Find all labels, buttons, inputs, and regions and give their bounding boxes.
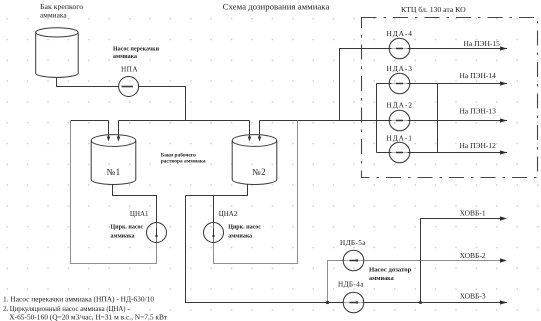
НДА-4 branch	[340, 49, 508, 121]
pump ЦНА1	[147, 223, 167, 243]
svg-text:ХОВБ-2: ХОВБ-2	[460, 251, 486, 260]
wire through pump ЦНА2	[213, 223, 215, 243]
tank1 feed stubs with arrows	[109, 121, 119, 138]
svg-text:аммиака: аммиака	[40, 11, 67, 20]
pump НДБ-5а	[343, 250, 364, 271]
ЦНА1 return loop (gray)	[71, 121, 157, 264]
svg-text:На ПЭН-13: На ПЭН-13	[460, 107, 497, 116]
svg-text:№2: №2	[252, 167, 266, 177]
svg-text:Насос перекачки: Насос перекачки	[113, 47, 160, 53]
pump НДА-1	[389, 142, 410, 163]
pump НДА-2	[389, 110, 410, 131]
wire through pump NPA	[120, 86, 137, 88]
central dosing feed line	[186, 196, 344, 303]
tank2 feed stubs with arrows	[250, 121, 260, 138]
svg-text:аммиака: аммиака	[113, 54, 137, 60]
pump НДБ-4а	[343, 292, 364, 313]
svg-text:аммиака: аммиака	[369, 275, 394, 282]
svg-text:НДБ-5а: НДБ-5а	[340, 239, 366, 247]
svg-text:КТЦ бл. 130 ата КО: КТЦ бл. 130 ата КО	[401, 5, 466, 14]
НДБ-5а discharge to ХОВБ-2 (gray)	[344, 260, 501, 262]
discharge tie	[437, 84, 439, 153]
svg-text:Схема дозирования аммиака: Схема дозирования аммиака	[223, 2, 330, 12]
arrow ХОВБ-2	[500, 258, 507, 262]
svg-text:ЦНА2: ЦНА2	[219, 210, 238, 218]
НДА-1 line	[377, 152, 508, 154]
wire: NPA discharge	[139, 87, 186, 121]
svg-text:ХОВБ-3: ХОВБ-3	[460, 292, 486, 301]
pump НДА-4	[389, 38, 410, 59]
svg-text:НДА-3: НДА-3	[387, 64, 413, 73]
svg-text:Баки рабочего: Баки рабочего	[161, 152, 196, 159]
svg-text:аммиака: аммиака	[111, 233, 135, 239]
svg-text:На ПЭН-14: На ПЭН-14	[460, 71, 497, 80]
ХОВБ tie line	[421, 219, 501, 303]
arrow ХОВБ-1	[500, 216, 507, 220]
main feed line y=120.5	[71, 120, 508, 122]
НДА-3 line	[377, 83, 508, 85]
svg-text:НДА-2: НДА-2	[387, 101, 413, 110]
svg-text:НДА-4: НДА-4	[387, 29, 413, 38]
svg-text:НДА-1: НДА-1	[387, 134, 413, 143]
arrow ХОВБ-3	[500, 300, 507, 304]
arrows На ПЭН	[500, 46, 507, 50]
svg-text:ХОВБ-1: ХОВБ-1	[460, 209, 486, 218]
pump НПА	[119, 77, 139, 97]
svg-text:Х-65-50-160 (Q=20 м3/час, Н=31: Х-65-50-160 (Q=20 м3/час, Н=31 м в.с., N…	[9, 312, 168, 321]
svg-text:На ПЭН-12: На ПЭН-12	[460, 141, 497, 150]
svg-text:№1: №1	[107, 167, 121, 177]
tank1 suction to ЦНА1	[113, 185, 157, 223]
svg-text:1. Насос перекачки аммиака (НП: 1. Насос перекачки аммиака (НПА) - НД-63…	[3, 295, 154, 304]
svg-text:ЦНА1: ЦНА1	[130, 210, 149, 218]
svg-text:Насос дозатор: Насос дозатор	[369, 266, 412, 273]
svg-text:Цирк. насос: Цирк. насос	[228, 225, 261, 231]
tank2 suction to ЦНА2 + central branch	[186, 185, 248, 223]
wire through pump ЦНА1	[156, 223, 158, 243]
tank: Бак крепкого аммиака	[36, 28, 79, 78]
tank №2	[232, 135, 277, 185]
svg-text:Цирк. насос: Цирк. насос	[111, 225, 144, 231]
ЦНА2 return loop (gray)	[214, 121, 298, 264]
svg-text:НПА: НПА	[121, 65, 138, 74]
svg-text:аммиака: аммиака	[228, 233, 252, 239]
pump ЦНА2	[204, 223, 224, 243]
НДБ-5а branch (gray)	[328, 261, 344, 303]
suction manifold	[376, 84, 378, 153]
svg-text:НДБ-4а: НДБ-4а	[338, 281, 364, 289]
pump НДА-3	[389, 73, 410, 94]
tank №1	[91, 135, 136, 185]
dashed box КТЦ	[362, 18, 538, 178]
svg-text:раствора аммиака: раствора аммиака	[161, 159, 206, 165]
wire: tank outlet to NPA suction	[57, 78, 119, 87]
svg-text:На ПЭН-15: На ПЭН-15	[464, 39, 501, 48]
junction dot	[326, 301, 329, 304]
